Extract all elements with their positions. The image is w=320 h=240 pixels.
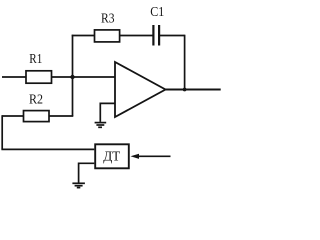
resistor R3 [95,30,120,42]
wire top horizontal to R3 [72,35,95,37]
wire non-inverting input [100,103,115,122]
wire output [166,89,221,91]
wire R2 to vertical [49,115,73,117]
node junction on inverting input wire [70,75,74,79]
wire R1 to op-amp input [52,76,116,78]
svg-text:R3: R3 [101,11,115,26]
wire C1 to feedback corner [159,35,185,37]
resistor R1 [26,71,52,83]
arrow input to sensor [131,154,171,159]
node junction on output wire [183,88,187,92]
wire feedback left vertical [72,35,74,116]
ground at op-amp input [95,123,107,128]
wire input left segment [2,76,27,78]
wire bottom horizontal to sensor block [1,148,94,150]
ground at sensor [72,183,85,187]
resistor R2 [24,111,50,122]
wire R3 to C1 [120,35,154,37]
block DT current sensor [95,144,129,168]
capacitor C1 [153,25,159,46]
wire feedback right vertical [184,35,186,90]
svg-text:C1: C1 [150,5,164,20]
wire sensor to ground [79,163,95,183]
wire left to R2 [2,115,24,117]
svg-text:ДТ: ДТ [103,149,120,164]
wire left vertical down [1,115,3,149]
svg-text:R1: R1 [29,52,42,67]
op-amp U1 [115,62,166,117]
svg-text:R2: R2 [29,92,43,107]
